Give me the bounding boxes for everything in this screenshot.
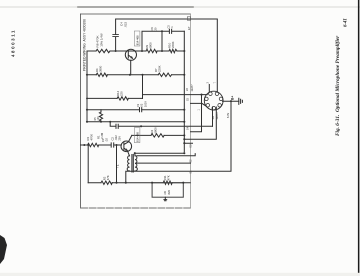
B+ rail x184 xyxy=(183,31,185,151)
wire y121.8 xyxy=(87,121,184,123)
wire y109.7 xyxy=(87,109,184,111)
svg-text:47K: 47K xyxy=(106,175,110,180)
svg-text:814-468: 814-468 xyxy=(136,35,140,45)
svg-text:10K: 10K xyxy=(97,116,100,121)
resistor R6 xyxy=(96,73,107,76)
svg-text:10% 1/4W: 10% 1/4W xyxy=(100,33,104,47)
svg-text:220K: 220K xyxy=(171,41,175,48)
resistor R11 xyxy=(163,181,172,184)
svg-text:20: 20 xyxy=(154,27,158,30)
resistor R5 vertical xyxy=(99,110,102,122)
transformer core xyxy=(132,155,133,173)
wire y98.4 with R220 xyxy=(87,97,143,99)
svg-text:T1: T1 xyxy=(116,164,120,168)
svg-text:2: 2 xyxy=(206,82,210,84)
capacitor C1 plates xyxy=(111,143,114,147)
svg-text:.1: .1 xyxy=(170,26,174,29)
scan top edge line xyxy=(0,6,360,8)
wire grid top E7 line xyxy=(116,19,218,92)
transistor Q1 xyxy=(121,141,132,152)
junction dots xyxy=(83,30,232,184)
tube V1 1/2 12AX7 envelope xyxy=(204,91,223,110)
E7 feedthrough square xyxy=(187,17,190,20)
svg-text:E7: E7 xyxy=(187,26,191,30)
svg-text:C6: C6 xyxy=(163,191,167,195)
box bottom ground tick xyxy=(164,197,167,201)
svg-text:1/2: 1/2 xyxy=(212,115,215,119)
ground symbol (rotated) xyxy=(239,98,243,104)
wire to tube pin1 y103.4 xyxy=(191,103,207,106)
resistor R2 xyxy=(101,181,112,184)
bias vertical from input xyxy=(87,145,89,183)
capacitor C3 plates xyxy=(140,108,142,112)
capacitor C2 plates xyxy=(116,124,118,128)
assembly box top edge xyxy=(81,13,191,15)
svg-text:820: 820 xyxy=(167,190,171,195)
resistor R220 xyxy=(117,97,128,100)
T1 secondary top wire y155.8 xyxy=(137,154,195,156)
svg-text:470K: 470K xyxy=(90,134,94,141)
transformer T1 left coil xyxy=(127,156,129,171)
svg-text:2.2M: 2.2M xyxy=(100,132,104,139)
wire y126.3 long heater line xyxy=(110,122,212,127)
boxed 814-468 Q2 xyxy=(134,31,140,46)
svg-text:6800: 6800 xyxy=(149,42,153,49)
vertical x117 bias xyxy=(116,145,118,183)
svg-text:4800311: 4800311 xyxy=(11,29,16,57)
svg-text:47K: 47K xyxy=(167,175,171,180)
assembly box left edge xyxy=(80,14,82,208)
svg-text:C5: C5 xyxy=(166,25,170,29)
wire y139 to E3 xyxy=(184,109,216,143)
capacitor C4 plates xyxy=(113,35,119,37)
svg-text:.02: .02 xyxy=(140,103,144,107)
T1 top right to y153 xyxy=(135,153,185,156)
Q1 input wire y145 xyxy=(81,144,122,146)
wire to tube grid y94.6 xyxy=(143,94,208,96)
svg-text:C9: C9 xyxy=(150,27,154,31)
wire y131.7 xyxy=(191,95,202,132)
tube pin stubs xyxy=(209,85,239,110)
resistor R8 xyxy=(96,49,110,52)
vertical x142.5 xyxy=(142,75,144,99)
svg-text:Fig. 6-31. Optional Microphon: Fig. 6-31. Optional Microphone Preamplif… xyxy=(335,35,341,136)
svg-text:3900: 3900 xyxy=(99,65,103,72)
svg-text:7: 7 xyxy=(212,82,216,84)
resistor R7 xyxy=(158,73,171,76)
svg-text:220K: 220K xyxy=(158,65,162,72)
resistor R10 xyxy=(169,49,177,52)
small box bottom xyxy=(152,183,183,198)
capacitor C5 plates xyxy=(169,29,171,33)
svg-text:C2: C2 xyxy=(111,137,115,141)
scan right edge black line xyxy=(358,0,360,276)
svg-text:B+: B+ xyxy=(231,96,235,100)
svg-text:C3: C3 xyxy=(136,103,140,107)
svg-text:220: 220 xyxy=(120,91,124,96)
svg-text:6800: 6800 xyxy=(154,127,158,134)
svg-text:814-468: 814-468 xyxy=(136,132,140,142)
svg-text:E5: E5 xyxy=(186,87,189,91)
T1 bottom wire y171.3 xyxy=(126,101,231,183)
boxed 814-468 Q1 xyxy=(134,128,140,143)
Q1 collector wire y135.4 xyxy=(132,134,185,136)
T1 right mid wire y163.1 xyxy=(136,162,191,164)
resistor R4 xyxy=(151,134,164,137)
svg-text:12AX7: 12AX7 xyxy=(216,111,219,119)
svg-text:6.3V: 6.3V xyxy=(227,113,230,118)
resistor R3 xyxy=(88,143,99,146)
transformer T1 right coil xyxy=(135,156,137,171)
svg-text:.022: .022 xyxy=(123,21,127,27)
svg-text:100V: 100V xyxy=(144,101,147,107)
svg-text:E5: E5 xyxy=(187,97,190,101)
svg-text:.02: .02 xyxy=(105,138,109,142)
svg-text:6-41: 6-41 xyxy=(344,18,349,27)
transistor Q2 xyxy=(125,49,136,60)
tube pin3 lead xyxy=(212,109,214,126)
resistor R9 xyxy=(146,49,157,52)
svg-text:E1: E1 xyxy=(190,170,193,174)
svg-text:25V: 25V xyxy=(118,136,121,141)
svg-text:PRINTED WIRING ASSY 4800308: PRINTED WIRING ASSY 4800308 xyxy=(83,19,87,71)
scan corner black blob xyxy=(0,235,7,264)
wire y51 base line xyxy=(87,50,184,52)
wire y31 collector bus xyxy=(142,31,184,51)
svg-text:E2: E2 xyxy=(190,159,193,163)
svg-text:12AT7: 12AT7 xyxy=(191,84,194,92)
wire y182.7 xyxy=(88,182,190,184)
svg-text:E4: E4 xyxy=(186,126,189,130)
wire y74.8 emitter line xyxy=(87,74,184,76)
assembly box bottom edge xyxy=(81,207,191,209)
rail x87 xyxy=(86,51,88,122)
svg-text:1: 1 xyxy=(198,109,201,111)
assembly box right edge xyxy=(190,14,192,208)
tube pins inner xyxy=(205,92,223,110)
